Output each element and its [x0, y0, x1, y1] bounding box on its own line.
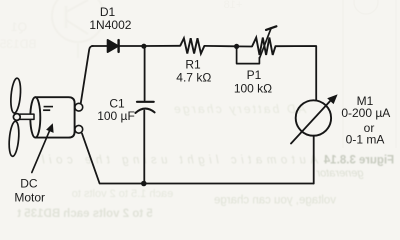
label R1	[185, 57, 201, 71]
wire: motor top terminal to top rail bend	[81, 46, 93, 103]
svg-text:R1: R1	[185, 57, 201, 71]
label 1N4002	[89, 18, 131, 32]
label 0-1 mA	[346, 133, 385, 147]
label or	[364, 121, 375, 135]
label 0-200 uA	[341, 106, 390, 120]
svg-text:100 µF: 100 µF	[97, 109, 135, 123]
bleed-through faint frame right	[224, 0, 396, 148]
meter M1 needle arrow	[291, 94, 338, 143]
wire: P1 right terminal to meter top	[275, 46, 316, 101]
svg-text:Motor: Motor	[14, 191, 45, 205]
resistor R1	[180, 38, 204, 53]
label C1	[109, 97, 125, 111]
bleed-through body text lines bottom	[17, 188, 336, 220]
wire: top rail to diode anode	[92, 45, 108, 47]
wire: R1 to node B	[204, 45, 236, 47]
label D1	[100, 5, 116, 19]
P1 wiper arm with screwdriver bar	[260, 26, 277, 58]
svg-text:Q1: Q1	[11, 20, 27, 34]
svg-text:P1: P1	[247, 68, 262, 82]
svg-text:1N4002: 1N4002	[89, 18, 131, 32]
bleed-through transistor Q1 (reverse page, faint)	[0, 0, 104, 58]
svg-text:100 kΩ: 100 kΩ	[234, 81, 272, 95]
svg-text:Figure 3.8.14: Figure 3.8.14	[323, 155, 394, 167]
potentiometer P1	[252, 38, 275, 55]
propeller hub	[13, 114, 20, 121]
wire: C1 bottom to node C	[143, 111, 145, 184]
label M1	[357, 94, 374, 108]
svg-text:each 1.5 to 2 volts to: each 1.5 to 2 volts to	[72, 188, 174, 200]
svg-text:BD135: BD135	[0, 37, 36, 51]
label P1	[247, 68, 262, 82]
node C junction dot (C1 to bottom rail)	[141, 181, 147, 187]
label arrow to motor	[32, 123, 54, 172]
label 100 kOhm	[234, 81, 272, 95]
node A junction dot	[141, 44, 146, 49]
node B junction dot	[234, 44, 239, 49]
meter M1 body	[296, 100, 331, 135]
wire: P1 wiper loop to node B	[237, 46, 260, 63]
bleed-through caption line (Figure 3.8.14 Automatic light using the coil)	[42, 155, 395, 180]
propeller top blade	[10, 78, 22, 114]
svg-text:DC: DC	[20, 177, 38, 191]
svg-text:+18: +18	[224, 0, 243, 11]
motor terminal top	[75, 103, 83, 111]
wire: node B to P1 element	[237, 45, 252, 47]
svg-text:5 to 2 volts each BD135 t: 5 to 2 volts each BD135 t	[17, 208, 153, 218]
svg-text:generator: generator	[315, 168, 363, 180]
propeller bottom blade	[8, 121, 20, 157]
diode D1	[108, 40, 119, 52]
bleed-through text mid (AD battery charger)	[174, 102, 307, 116]
motor shaft	[20, 114, 35, 119]
label 100 uF	[97, 109, 135, 123]
svg-text:0-200 µA: 0-200 µA	[341, 106, 390, 120]
DC motor body	[30, 97, 74, 137]
svg-text:voltage, you can charge: voltage, you can charge	[214, 195, 336, 207]
wire: node A to R1	[144, 45, 180, 47]
capacitor C1	[135, 102, 154, 113]
motor brush marks	[43, 107, 53, 111]
label DC Motor	[14, 177, 45, 205]
wire: node A down to C1 top	[144, 46, 146, 100]
wire: diode cathode to node A	[119, 45, 144, 47]
wire: meter bottom to bottom rail	[313, 136, 315, 184]
wire: bottom rail	[82, 134, 314, 184]
svg-text:0-1 mA: 0-1 mA	[346, 133, 385, 147]
label 4.7 kOhm	[176, 70, 211, 84]
svg-text:4.7 kΩ: 4.7 kΩ	[176, 70, 211, 84]
motor terminal bottom	[75, 125, 83, 133]
